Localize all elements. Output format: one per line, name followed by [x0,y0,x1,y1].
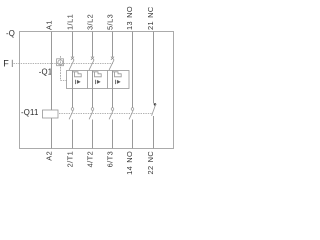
magnetic release I&gt; L1 [75,80,77,84]
magnetic release I&gt; L2 [95,80,97,84]
contactor blade T2 [89,111,93,120]
svg-text:-Q1: -Q1 [39,68,53,77]
F trip dashed line [14,63,114,65]
trip release linkage dashed [61,80,68,82]
trip unit box [67,71,130,89]
wire through trip box L1 [72,71,74,89]
mechanism square [57,59,64,66]
wire below contact T3 [112,120,114,149]
wire down to contactor contact T1 [72,89,74,108]
svg-text:4/T2: 4/T2 [86,151,95,168]
breaker contact x mark L3 [111,57,114,60]
breaker contact x mark L2 [91,57,94,60]
contactor contact circle T1 [71,108,74,111]
breaker blade L1 [69,60,74,70]
wire 21 NC from top [153,32,155,104]
contactor blade T1 [69,111,73,120]
wire through trip box L2 [92,71,94,89]
coil linkage dashed [59,113,152,115]
breaker blade L3 [109,60,114,70]
magnetic release I&gt; L3 [115,80,117,84]
boundary box -Q [20,32,174,149]
thermal release L2 [93,72,102,77]
contactor contact circle T3 [111,108,114,111]
breaker contact x mark L1 [71,57,74,60]
wire below contact NO aux [132,120,134,149]
svg-text:2/T1: 2/T1 [66,151,75,168]
mechanism vertical dashed link [60,56,62,81]
pole L3 wire from top [112,32,114,58]
F tick [11,60,13,67]
wire through trip box L3 [112,71,114,89]
svg-text:21 NC: 21 NC [146,6,155,30]
svg-text:1/L1: 1/L1 [66,14,75,30]
svg-text:14 NO: 14 NO [125,151,134,175]
thermal release L3 [113,72,122,77]
svg-text:-Q11: -Q11 [21,108,39,117]
pole L1 wire from top [72,32,74,58]
svg-text:A2: A2 [45,151,54,161]
thermal release L1 [73,72,82,77]
svg-text:A1: A1 [45,20,54,30]
wire below contact T1 [72,120,74,149]
svg-text:F: F [3,59,9,69]
svg-text:22 NC: 22 NC [146,151,155,175]
contactor contact circle NO aux [131,108,134,111]
breaker blade L2 [89,60,94,70]
svg-text:13 NO: 13 NO [125,6,134,30]
svg-text:6/T3: 6/T3 [106,151,115,168]
contactor blade T3 [109,111,113,120]
wire below contact T2 [92,120,94,149]
wire coil down to A2 [51,118,53,149]
trip unit divider 2 [107,71,109,89]
mechanism circle [58,60,63,65]
contactor coil -Q11 [43,110,59,118]
wire down to contactor contact T3 [112,89,114,108]
contactor blade NO aux [129,111,133,120]
wire down to contactor contact NO aux [132,32,134,108]
contactor contact circle T2 [91,108,94,111]
aux NC pivot dot [154,103,157,106]
svg-text:-Q: -Q [6,29,15,38]
svg-text:3/L2: 3/L2 [86,14,95,30]
trip unit divider 1 [87,71,89,89]
wire down to contactor contact T2 [92,89,94,108]
svg-text:5/L3: 5/L3 [106,14,115,30]
wire down to 22 NC [153,116,155,149]
pole L2 wire from top [92,32,94,58]
aux NC blade [152,104,156,116]
wire A1 down to coil [51,32,53,111]
